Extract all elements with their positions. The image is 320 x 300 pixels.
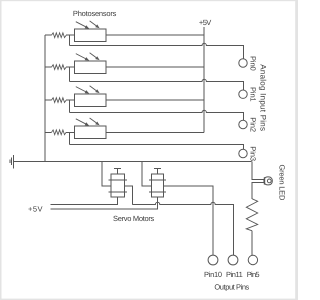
svg-text:Output Pins: Output Pins (214, 283, 249, 292)
svg-text:Pin0: Pin0 (249, 56, 258, 71)
photosensor LDR2 (75, 61, 107, 73)
wire row3 (45, 99, 52, 101)
wire R1 to LDR1 (66, 34, 74, 36)
svg-text:Pin2: Pin2 (249, 117, 258, 132)
svg-text:Pin5: Pin5 (247, 270, 260, 279)
svg-text:Pin3: Pin3 (249, 146, 258, 161)
servo motor M1 (109, 169, 127, 198)
wire row4 (45, 131, 52, 133)
wire LDR2 to +5V bus (106, 66, 204, 68)
wire R5 to Pin5 (251, 231, 253, 256)
servo motor M2 (149, 169, 166, 198)
wire servo1 signal to Pin11 (bumps over stub and Pin10 wire) (132, 202, 233, 255)
wire tap2 drop (69, 67, 71, 81)
wire R2 to LDR2 (66, 66, 74, 68)
svg-text:Pin10: Pin10 (204, 270, 222, 279)
wire servo1 right lead (124, 186, 132, 205)
wire tap3 to Pin2 (bump over bus) (70, 110, 244, 120)
svg-text:Servo Motors: Servo Motors (113, 214, 155, 223)
wire row2 (45, 66, 52, 68)
svg-text:Photosensors: Photosensors (73, 9, 117, 18)
LED D1 green (264, 177, 272, 185)
wire row1 (45, 34, 52, 36)
node Pin10 (208, 255, 218, 265)
photosensor LDR1 (75, 29, 107, 41)
wire servo1 gnd lead (102, 162, 111, 187)
wire +5V to servo2 bottom (50, 197, 157, 209)
svg-text:+5V: +5V (28, 204, 43, 213)
wire gnd to LED (252, 162, 264, 180)
wire R4 to LDR4 (66, 131, 74, 133)
wire tap3 drop (69, 100, 71, 112)
photosensor LDR4 (75, 126, 107, 138)
wire left bus (44, 35, 46, 161)
photosensor LDR3 (75, 94, 107, 106)
wire R3 to LDR3 (66, 99, 74, 101)
wire LDR1 to +5V bus (106, 34, 204, 36)
wire servo2 signal to Pin10 (164, 186, 213, 255)
wire tap1 to Pin0 (bump over bus) (70, 43, 244, 59)
resistor R1 (52, 33, 67, 38)
node Pin0 (239, 59, 247, 67)
wire tap4 to Pin3 (70, 145, 244, 150)
wire tap4 drop (69, 132, 71, 144)
wire LDR4 to +5V bus (106, 131, 204, 133)
svg-text:Pin1: Pin1 (249, 87, 258, 102)
wire ground rail (13, 161, 251, 163)
svg-text:+5V: +5V (199, 18, 211, 27)
wire tap1 drop (69, 35, 71, 45)
resistor R5 (246, 199, 257, 231)
wire LED cathode (252, 183, 264, 199)
resistor R3 (52, 98, 67, 103)
node Pin2 (239, 120, 247, 128)
node Pin5 (248, 255, 257, 264)
wire +5V bus (203, 27, 205, 132)
wire +5V to servo1 bottom (50, 197, 117, 204)
resistor R2 (52, 65, 67, 70)
wire servo2 gnd lead (142, 162, 151, 187)
wire LDR3 to +5V bus (106, 99, 204, 101)
node Pin1 (239, 90, 247, 98)
svg-text:Pin11: Pin11 (226, 270, 243, 279)
wire tap2 to Pin1 (bump over bus) (70, 79, 244, 90)
node Pin11 (228, 255, 238, 265)
node Pin3 (239, 149, 247, 157)
ground (10, 155, 14, 168)
svg-text:Analog Input Pins: Analog Input Pins (258, 64, 267, 131)
svg-text:Green LED: Green LED (277, 165, 286, 201)
resistor R4 (52, 130, 67, 135)
